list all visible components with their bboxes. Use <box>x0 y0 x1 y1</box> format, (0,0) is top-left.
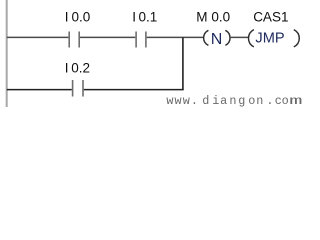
wire I0.2 to branch corner <box>84 89 184 91</box>
wire coil N to coil JMP <box>230 36 249 38</box>
contact I0.0 <box>69 32 79 48</box>
contact I0.2 <box>73 80 83 97</box>
label M 0.0 <box>196 10 230 25</box>
svg-text:0.2: 0.2 <box>71 61 90 76</box>
svg-text:0.0: 0.0 <box>72 10 91 25</box>
left power rail <box>6 0 8 107</box>
svg-text:0.0: 0.0 <box>211 10 230 25</box>
label I 0.0 <box>65 10 90 25</box>
wire I0.1 to coil N <box>147 36 204 38</box>
watermark www.diangon.com <box>166 94 302 108</box>
svg-text:N: N <box>211 31 223 48</box>
contact I0.1 <box>136 32 146 48</box>
svg-text:m: m <box>289 94 302 108</box>
svg-text:I: I <box>132 10 136 25</box>
label I 0.2 <box>65 61 90 76</box>
coil N (negated coil) <box>204 30 230 48</box>
coil JMP (jump) <box>249 30 300 47</box>
label I 0.1 <box>132 10 157 25</box>
junction vertical branch wire <box>182 37 184 89</box>
wire rung1 rail to I0.0 <box>7 36 69 38</box>
svg-text:I: I <box>65 61 69 76</box>
wire rung2 rail to I0.2 <box>7 89 72 91</box>
svg-text:I: I <box>65 10 69 25</box>
svg-text:CAS1: CAS1 <box>253 10 288 25</box>
svg-text:JMP: JMP <box>255 31 284 47</box>
svg-text:M: M <box>196 10 207 25</box>
wire I0.0 to I0.1 <box>80 36 135 38</box>
svg-text:0.1: 0.1 <box>139 10 158 25</box>
